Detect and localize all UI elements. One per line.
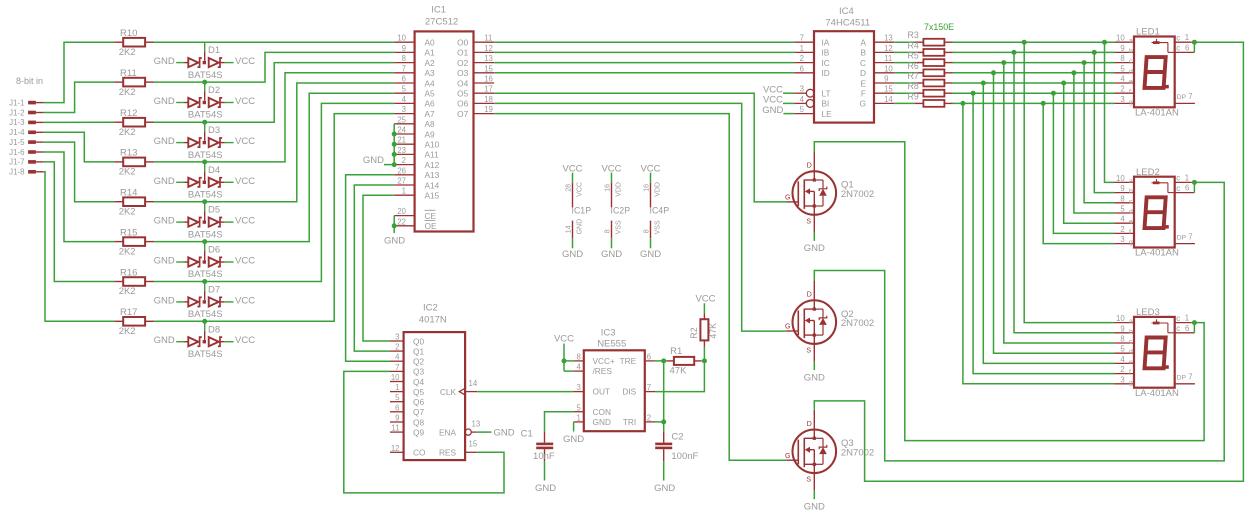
svg-text:LED2: LED2 [1136, 167, 1160, 178]
svg-text:7: 7 [800, 34, 804, 43]
svg-text:GND: GND [363, 155, 384, 166]
IC1 pin 22 /OE [394, 217, 437, 231]
svg-text:9: 9 [884, 75, 888, 84]
svg-text:14: 14 [469, 379, 478, 388]
svg-text:A4: A4 [425, 78, 436, 88]
svg-text:IC2P: IC2P [611, 206, 631, 216]
svg-text:28: 28 [566, 184, 573, 192]
svg-text:A0: A0 [425, 38, 436, 48]
IC3 pin 8 VCC+ [574, 353, 584, 362]
svg-text:D5: D5 [208, 205, 220, 216]
IC1 pin 17 O5 [457, 85, 494, 99]
svg-text:4: 4 [1120, 355, 1125, 364]
svg-text:2: 2 [647, 414, 651, 423]
svg-text:D: D [807, 163, 812, 170]
wire IC1 O5 to Q1 gate [494, 93, 786, 202]
IC IC3 NE555 body [584, 328, 645, 431]
svg-text:2K2: 2K2 [119, 286, 136, 297]
IC3 pin 6 TRE [645, 353, 655, 362]
svg-text:1: 1 [1185, 314, 1189, 323]
svg-text:8: 8 [644, 229, 651, 233]
svg-text:R11: R11 [120, 68, 137, 79]
IC4 pin 6 ID [794, 64, 829, 78]
wire IC1 O6 to Q2 gate [494, 103, 786, 331]
IC2 pin 4 Q2 [390, 353, 424, 367]
wire J1-6 to R15 [44, 152, 115, 242]
label GND at IC4 LE [762, 105, 794, 116]
svg-text:VCC: VCC [235, 176, 255, 187]
svg-text:13: 13 [484, 54, 493, 63]
connector pin J1-7 [9, 158, 43, 167]
svg-text:R17: R17 [120, 307, 137, 318]
diode D7 BAT54S [154, 282, 256, 321]
svg-text:27: 27 [397, 177, 406, 186]
capacitor C2 100nF [655, 431, 698, 462]
IC2 pin 2 Q1 [390, 343, 424, 357]
wire R2 to junction [703, 347, 705, 361]
svg-text:22: 22 [397, 217, 406, 226]
resistor R9 [908, 91, 953, 106]
svg-text:a: a [1129, 178, 1133, 185]
svg-text:B: B [860, 48, 866, 58]
IC1 pin 7 A3 [394, 64, 435, 78]
svg-text:c: c [1129, 198, 1133, 205]
wire segment B drop to LED2 [1094, 52, 1114, 192]
svg-text:5: 5 [576, 403, 581, 412]
wire segment G bus to LED1 [953, 102, 1115, 104]
LED1 pin 5 d [1115, 64, 1135, 75]
svg-text:16: 16 [484, 75, 493, 84]
svg-text:GND: GND [593, 417, 611, 427]
svg-text:6: 6 [647, 353, 651, 362]
IC4 pin 9 E [860, 75, 894, 89]
svg-text:LA-401AN: LA-401AN [1135, 248, 1179, 259]
junction seg G LED3 [960, 101, 965, 106]
svg-text:BAT54S: BAT54S [188, 269, 223, 280]
svg-text:VSS: VSS [655, 220, 662, 234]
svg-text:2K2: 2K2 [119, 246, 136, 257]
svg-text:5: 5 [1120, 205, 1125, 214]
svg-text:1: 1 [1185, 173, 1189, 182]
svg-text:5: 5 [402, 85, 407, 94]
svg-text:IB: IB [822, 48, 830, 58]
svg-text:c: c [1176, 33, 1180, 42]
IC2 pin 13 ENA [439, 419, 480, 437]
svg-text:9: 9 [402, 44, 406, 53]
connector pin J1-8 [9, 168, 43, 177]
svg-text:e: e [1129, 79, 1133, 86]
svg-text:GND: GND [154, 176, 175, 187]
svg-text:VCC: VCC [235, 256, 255, 267]
svg-text:11: 11 [391, 424, 399, 433]
IC3 left pin names [593, 356, 616, 427]
diode D5 BAT54S [154, 202, 256, 241]
junction TRE [661, 358, 666, 363]
svg-text:d: d [1129, 209, 1133, 216]
IC1 pin 6 A4 [394, 75, 435, 89]
wire R14 output to IC1 A4 [154, 83, 394, 202]
junction seg B LED3 [1012, 50, 1017, 55]
svg-text:7: 7 [647, 383, 651, 392]
IC4 pin 13 A [860, 34, 894, 48]
svg-text:R16: R16 [120, 267, 137, 278]
wire TRI junction to C2 [663, 422, 665, 431]
IC3 pin 4 /RES [574, 363, 584, 372]
LED1 pin 2 f [1115, 85, 1135, 96]
svg-text:Q2: Q2 [413, 357, 424, 367]
svg-text:IC4P: IC4P [650, 206, 670, 216]
svg-text:47K: 47K [708, 323, 718, 339]
svg-text:5: 5 [1120, 64, 1125, 73]
svg-text:10nF: 10nF [533, 451, 555, 462]
svg-text:VDD: VDD [655, 182, 662, 197]
wire LED1 cathode to Q3 drain [814, 42, 1243, 481]
svg-text:NE555: NE555 [597, 339, 626, 350]
wire Q2 source to GND [813, 362, 815, 371]
IC1 pin 19 O7 [457, 105, 494, 119]
IC1 pin 9 A1 [394, 44, 435, 58]
wire J1-1 to R10 [44, 42, 115, 102]
svg-text:BI: BI [822, 99, 830, 109]
svg-text:RES: RES [439, 448, 457, 458]
junction A11 [392, 152, 397, 157]
resistor R8 [908, 81, 953, 96]
svg-text:Q9: Q9 [413, 427, 424, 437]
svg-text:BAT54S: BAT54S [188, 349, 223, 360]
IC4 pin 1 IB [794, 44, 829, 58]
junction diode D6 tap [202, 239, 207, 244]
wire R17 output to IC1 A7 [154, 114, 394, 322]
svg-text:R13: R13 [120, 148, 137, 159]
svg-text:17: 17 [484, 85, 493, 94]
svg-text:9: 9 [1120, 44, 1124, 53]
svg-text:A14: A14 [425, 180, 440, 190]
wire segment G drop to LED3 [963, 103, 1115, 383]
svg-text:Q4: Q4 [413, 377, 424, 387]
wire TRE junction to TRI junction [663, 361, 665, 422]
junction diode D5 tap [202, 199, 207, 204]
wire R15 output to IC1 A5 [154, 93, 394, 241]
svg-text:GND: GND [535, 483, 556, 494]
svg-text:OUT: OUT [593, 387, 611, 397]
IC1 pin 11 O0 [457, 34, 494, 48]
svg-text:O3: O3 [457, 68, 468, 78]
junction seg C LED3 [1001, 60, 1006, 65]
svg-text:GND: GND [601, 249, 622, 260]
wire IC1 CE,OE to GND [393, 216, 395, 233]
svg-text:VCC: VCC [554, 334, 574, 345]
svg-text:IC1: IC1 [431, 4, 446, 15]
svg-text:D1: D1 [208, 45, 220, 56]
svg-text:LA-401AN: LA-401AN [1135, 388, 1179, 399]
LED2 pin 5 d [1115, 205, 1135, 216]
svg-text:15: 15 [484, 64, 493, 73]
IC1 pin 13 O2 [457, 54, 494, 68]
svg-text:A1: A1 [425, 48, 436, 58]
svg-text:e: e [1129, 359, 1133, 366]
LED3 pin 6 c [1175, 324, 1195, 333]
svg-text:d: d [1129, 349, 1133, 356]
svg-text:R15: R15 [120, 227, 137, 238]
svg-text:8-bit in: 8-bit in [16, 76, 43, 86]
resistor R16 2K2 [114, 267, 154, 297]
svg-text:VCC: VCC [235, 216, 255, 227]
resistor R2 47K [689, 314, 718, 347]
resistor R3 [908, 30, 953, 45]
IC2 pin 9 Q8 [390, 414, 424, 428]
svg-text:8: 8 [1120, 335, 1124, 344]
IC1 pin 23 A11 [394, 146, 439, 160]
LED display LED1 LA-401AN [1134, 27, 1179, 119]
svg-text:12: 12 [884, 44, 893, 53]
svg-text:b: b [1129, 188, 1133, 195]
IC1 pin 3 A7 [394, 105, 435, 119]
LED2 pin 8 c [1115, 194, 1135, 205]
svg-text:10: 10 [391, 373, 400, 382]
junction seg C LED2 [1082, 60, 1087, 65]
svg-text:VCC: VCC [577, 182, 584, 197]
wire IC1 A15 to IC2 Q0 [363, 195, 394, 341]
IC1 pin 27 A14 [394, 177, 439, 191]
power pins IC4P [640, 163, 669, 260]
resistor R12 2K2 [114, 108, 154, 138]
svg-text:g: g [1129, 99, 1133, 106]
svg-text:DP: DP [1177, 234, 1187, 241]
svg-text:A10: A10 [425, 140, 440, 150]
IC2 pin 14 CLK [440, 379, 478, 397]
svg-text:VCC: VCC [235, 136, 255, 147]
IC1 pin 20 /CE [394, 207, 436, 221]
svg-text:2K2: 2K2 [119, 127, 136, 138]
resistor R1 47K [667, 346, 702, 377]
resistor R5 [908, 51, 953, 66]
svg-text:5: 5 [800, 105, 805, 114]
svg-text:c: c [1176, 174, 1180, 183]
IC2 pin 12 CO [390, 444, 426, 458]
wire segment D bus to LED1 [953, 72, 1115, 74]
label VCC at IC4 BI [763, 95, 794, 106]
svg-text:d: d [1129, 68, 1133, 75]
svg-text:A13: A13 [425, 170, 440, 180]
junction seg F LED3 [971, 91, 976, 96]
svg-text:2N7002: 2N7002 [841, 189, 874, 200]
svg-text:O4: O4 [457, 78, 468, 88]
wire IC3 DIS to R1/R2 junction [655, 361, 704, 392]
svg-text:25: 25 [397, 115, 406, 124]
IC2 pin 10 Q4 [390, 373, 424, 387]
LED3 pin 1 c [1175, 314, 1192, 323]
IC1 pin 25 A8 [394, 115, 435, 129]
junction seg A LED3 [1022, 40, 1027, 45]
svg-text:16: 16 [644, 184, 651, 192]
wire IC1 O0 to IC4 IA [494, 41, 794, 43]
svg-text:5: 5 [395, 393, 400, 402]
LED2 pin 10 a [1115, 174, 1135, 185]
svg-text:18: 18 [484, 95, 493, 104]
svg-text:3: 3 [402, 105, 406, 114]
svg-text:GND: GND [563, 434, 584, 445]
svg-text:2K2: 2K2 [119, 326, 136, 337]
svg-text:4: 4 [576, 363, 581, 372]
svg-text:15: 15 [469, 440, 478, 449]
svg-text:VCC: VCC [695, 293, 715, 304]
wire IC3 TRI [655, 421, 664, 423]
LED1 pin 4 e [1115, 75, 1135, 86]
wire C1 to GND [544, 461, 546, 480]
connector pin J1-3 [9, 118, 43, 127]
connector pin J1-6 [9, 148, 43, 157]
svg-text:8: 8 [402, 54, 406, 63]
wire C2 to GND [663, 461, 665, 480]
IC4 pin 14 G [860, 95, 895, 109]
wire Q1 source to GND [813, 233, 815, 241]
svg-text:S: S [806, 477, 811, 484]
junction diode D7 tap [202, 279, 207, 284]
IC2 pin 11 Q9 [390, 424, 424, 438]
wire IC2 Q3 to RES [344, 371, 504, 493]
svg-text:DP: DP [1177, 94, 1187, 101]
svg-text:D7: D7 [208, 285, 220, 296]
svg-text:3: 3 [1120, 375, 1124, 384]
svg-text:4: 4 [1120, 215, 1125, 224]
svg-text:1: 1 [395, 383, 399, 392]
svg-text:20: 20 [397, 207, 406, 216]
IC3 pin 7 DIS [645, 383, 655, 392]
svg-text:10: 10 [1116, 34, 1125, 43]
IC4 pin 12 B [860, 44, 894, 58]
wire IC3 CON to C1 [545, 412, 574, 432]
svg-text:D: D [807, 421, 812, 428]
svg-text:100nF: 100nF [671, 451, 698, 462]
svg-text:23: 23 [397, 146, 406, 155]
wire IC1 O1 to IC4 IB [494, 51, 794, 53]
svg-text:A15: A15 [425, 191, 440, 201]
svg-text:IA: IA [822, 38, 830, 48]
IC4 pin 3 /LT [794, 85, 830, 99]
svg-text:R4: R4 [908, 40, 919, 50]
LED2 pin 7 dp [1175, 232, 1195, 243]
junction seg D LED3 [991, 70, 996, 75]
LED3 pin 4 e [1115, 355, 1135, 366]
svg-text:2: 2 [1120, 225, 1124, 234]
power VCC at IC3 [554, 334, 574, 361]
svg-text:2: 2 [800, 54, 804, 63]
svg-text:13: 13 [884, 34, 893, 43]
svg-text:C2: C2 [671, 432, 683, 443]
svg-text:IC: IC [822, 58, 830, 68]
svg-text:GND: GND [562, 249, 583, 260]
svg-text:E: E [860, 78, 866, 88]
svg-text:2K2: 2K2 [119, 47, 136, 58]
svg-text:GND: GND [762, 105, 783, 116]
junction TRI [661, 419, 666, 424]
IC IC4 74HC4511 body [814, 6, 874, 123]
IC1 pin 12 O1 [457, 44, 494, 58]
svg-text:A2: A2 [425, 58, 436, 68]
svg-text:GND: GND [154, 136, 175, 147]
svg-text:4017N: 4017N [419, 314, 447, 325]
IC2 pin 5 Q6 [390, 393, 424, 407]
svg-text:DIS: DIS [622, 387, 636, 397]
svg-text:f: f [1129, 369, 1131, 376]
LED2 pin 9 b [1115, 184, 1135, 195]
svg-text:7: 7 [395, 363, 399, 372]
wire IC4 E to R7 [894, 82, 915, 84]
svg-text:TRE: TRE [620, 356, 637, 366]
svg-text:6: 6 [1185, 184, 1189, 193]
wire segment E drop to LED3 [983, 83, 1114, 363]
resistor R13 2K2 [114, 148, 154, 178]
connector pin J1-2 [9, 108, 43, 117]
svg-text:BAT54S: BAT54S [188, 190, 223, 201]
wire segment D drop to LED3 [994, 73, 1115, 353]
wire J1-8 to R17 [44, 172, 115, 321]
svg-text:6: 6 [800, 64, 804, 73]
svg-text:2: 2 [1120, 365, 1124, 374]
svg-text:11: 11 [884, 54, 892, 63]
resistor R7 [908, 71, 953, 86]
junction OE [392, 223, 397, 228]
IC3 right pin names [620, 356, 637, 427]
svg-text:GND: GND [804, 502, 825, 513]
transistor Q3 2N7002 [785, 410, 874, 491]
svg-text:BAT54S: BAT54S [188, 110, 223, 121]
svg-text:c: c [1129, 339, 1133, 346]
LED1 pin 10 a [1115, 34, 1135, 45]
svg-text:R6: R6 [908, 61, 919, 71]
IC2 pin 7 Q3 [390, 363, 424, 377]
svg-text:f: f [1129, 229, 1131, 236]
diode D1 BAT54S [154, 42, 256, 81]
svg-text:GND: GND [154, 295, 175, 306]
wire LED2 c6 to c1 [1193, 182, 1195, 192]
IC1 pin 15 O3 [457, 64, 494, 78]
wire R11 output to IC1 A1 [154, 52, 394, 82]
junction R1/R2/DIS [702, 358, 707, 363]
LED3 pin 2 f [1115, 365, 1135, 376]
svg-text:D4: D4 [208, 165, 220, 176]
resistor R6 [908, 61, 953, 76]
svg-text:12: 12 [391, 444, 400, 453]
svg-text:J1-6: J1-6 [9, 148, 25, 157]
svg-text:CE: CE [425, 211, 437, 221]
svg-text:A7: A7 [425, 109, 436, 119]
IC1 pin 24 A9 [394, 126, 435, 140]
wire R13 output to IC1 A3 [154, 73, 394, 162]
svg-text:3: 3 [576, 383, 580, 392]
diode D3 BAT54S [154, 122, 256, 161]
svg-text:2K2: 2K2 [119, 87, 136, 98]
svg-text:1: 1 [402, 187, 406, 196]
wire segment C bus to LED1 [953, 62, 1115, 64]
svg-text:G: G [785, 324, 790, 331]
capacitor C1 10nF [521, 429, 555, 463]
svg-text:LE: LE [822, 109, 833, 119]
svg-text:R9: R9 [908, 91, 919, 101]
svg-text:OE: OE [425, 221, 437, 231]
svg-text:4: 4 [402, 95, 407, 104]
svg-text:O5: O5 [457, 89, 468, 99]
wire segment E drop to LED2 [1064, 83, 1115, 223]
svg-text:VCC: VCC [235, 295, 255, 306]
wire IC2 CLK to IC3 OUT [477, 391, 573, 393]
wire J1-7 to R16 [44, 162, 115, 282]
svg-text:3: 3 [1120, 95, 1124, 104]
wire IC4 C to R5 [894, 62, 915, 64]
svg-text:A9: A9 [425, 129, 436, 139]
IC2 pin 1 Q5 [390, 383, 424, 397]
svg-text:14: 14 [884, 95, 893, 104]
